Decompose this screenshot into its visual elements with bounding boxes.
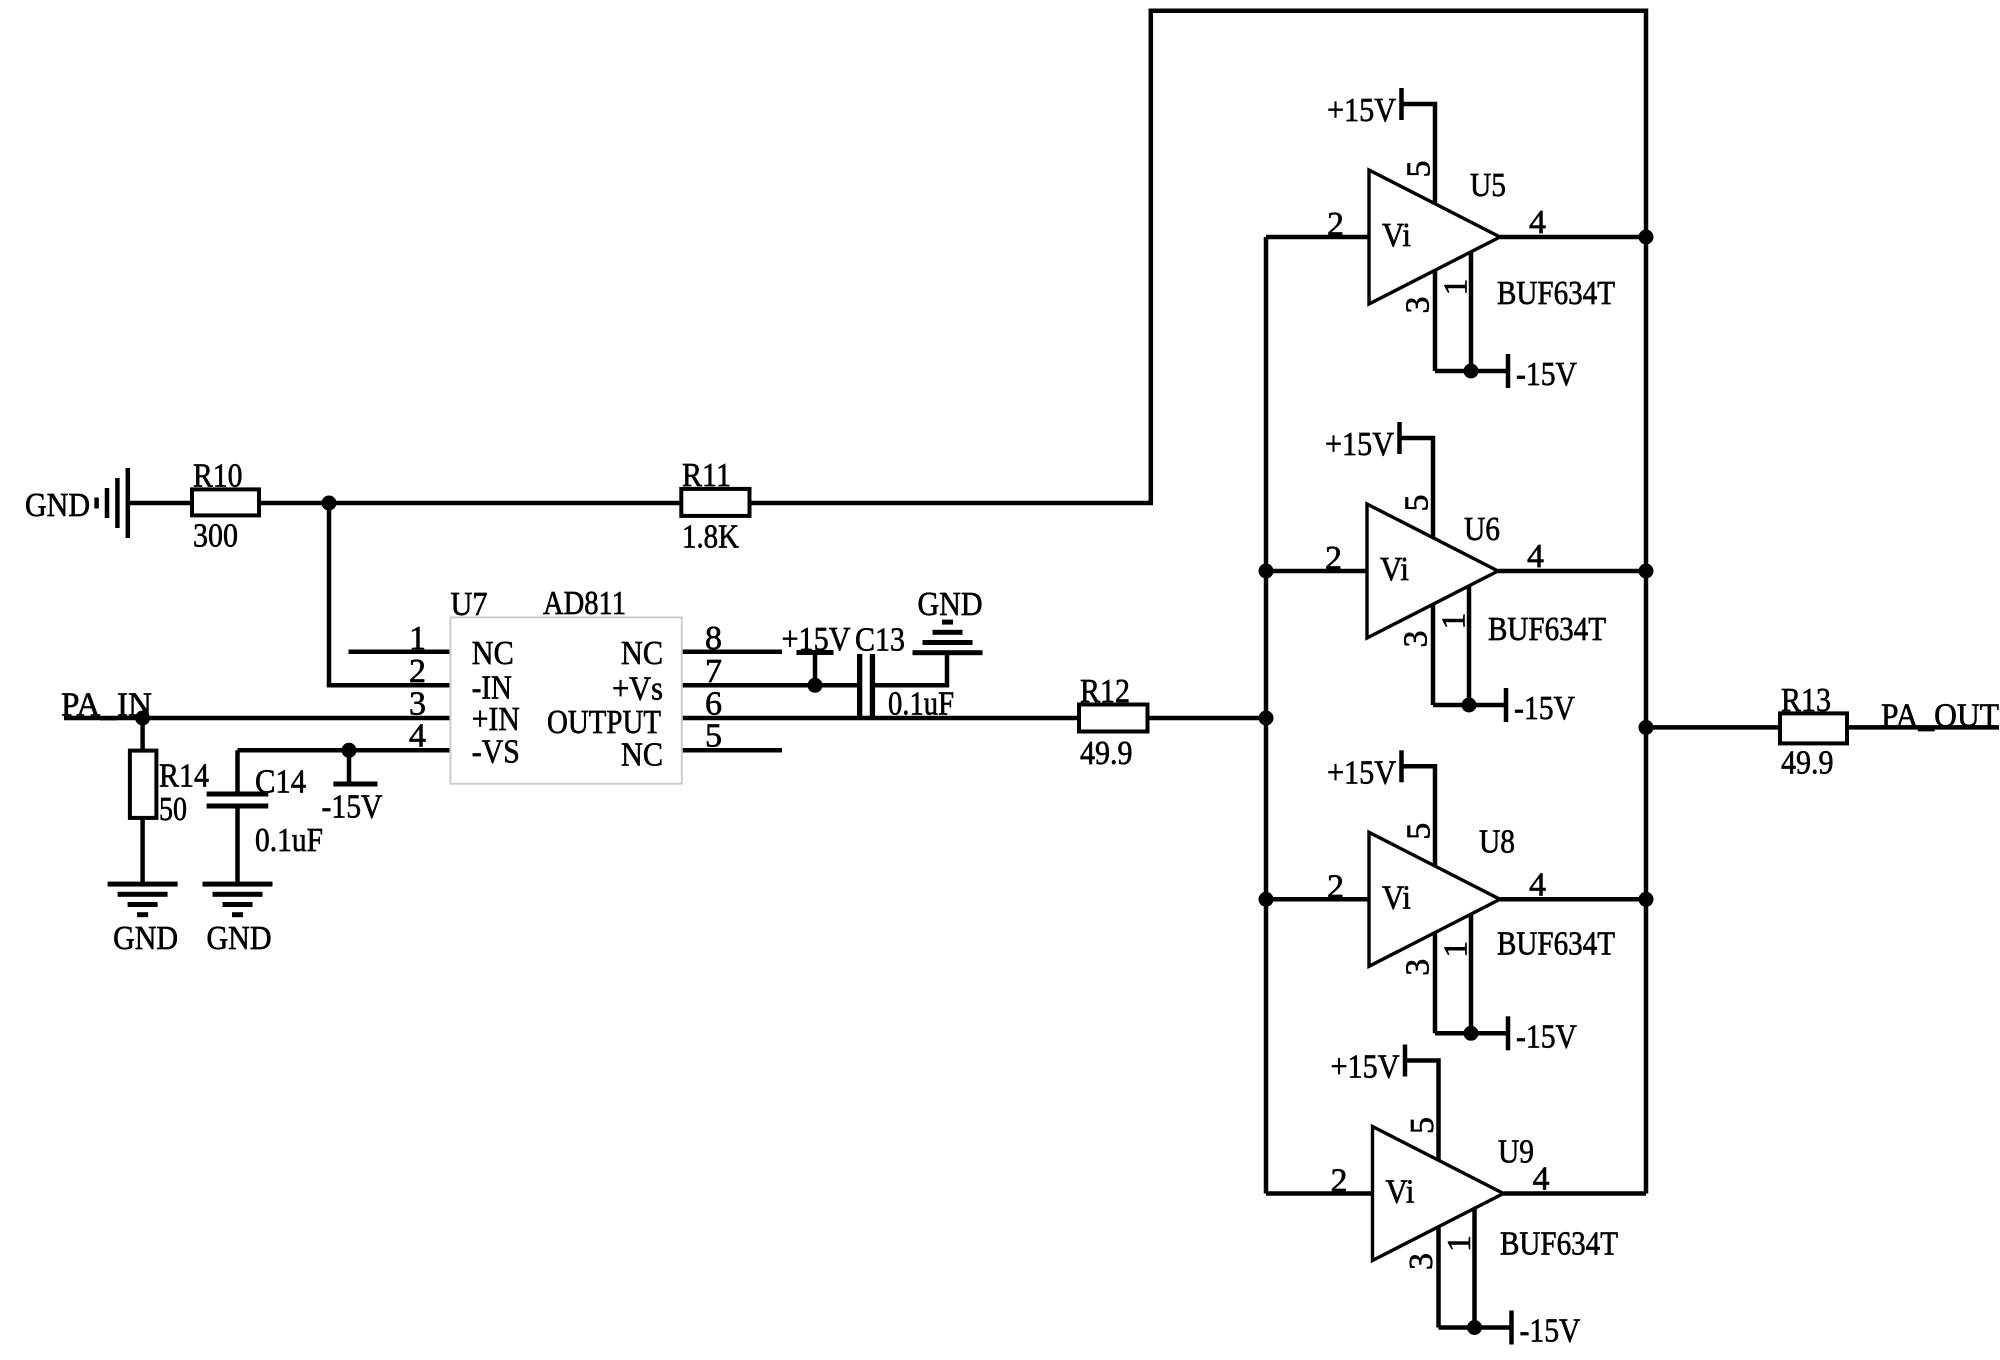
svg-text:4: 4 xyxy=(409,717,426,754)
svg-text:U7: U7 xyxy=(451,586,488,623)
svg-text:Vi: Vi xyxy=(1380,551,1409,588)
svg-text:NC: NC xyxy=(621,737,663,774)
svg-text:49.9: 49.9 xyxy=(1080,735,1133,772)
svg-text:R12: R12 xyxy=(1080,673,1130,710)
svg-text:3: 3 xyxy=(1403,1253,1440,1270)
svg-text:4: 4 xyxy=(1529,204,1546,241)
svg-text:+15V: +15V xyxy=(1331,1049,1400,1086)
svg-text:Vi: Vi xyxy=(1382,879,1411,916)
svg-text:-15V: -15V xyxy=(1514,690,1575,727)
svg-text:U9: U9 xyxy=(1498,1134,1534,1171)
svg-text:0.1uF: 0.1uF xyxy=(888,686,954,723)
svg-text:BUF634T: BUF634T xyxy=(1488,611,1606,648)
svg-text:4: 4 xyxy=(1529,866,1546,903)
svg-text:GND: GND xyxy=(113,920,178,957)
svg-text:R11: R11 xyxy=(682,457,731,494)
svg-text:+15V: +15V xyxy=(1327,92,1396,129)
svg-text:Vi: Vi xyxy=(1386,1174,1415,1211)
svg-text:5: 5 xyxy=(1401,823,1438,840)
svg-text:-VS: -VS xyxy=(472,734,520,771)
svg-text:8: 8 xyxy=(705,620,722,657)
svg-text:4: 4 xyxy=(1527,538,1544,575)
svg-text:1.8K: 1.8K xyxy=(682,519,739,556)
svg-text:PA_IN: PA_IN xyxy=(61,687,152,724)
svg-text:NC: NC xyxy=(472,635,514,672)
svg-text:-15V: -15V xyxy=(1516,356,1577,393)
svg-text:BUF634T: BUF634T xyxy=(1500,1226,1618,1263)
svg-text:OUTPUT: OUTPUT xyxy=(547,704,661,741)
svg-text:1: 1 xyxy=(1441,1235,1478,1252)
svg-text:1: 1 xyxy=(1436,613,1473,630)
svg-text:GND: GND xyxy=(25,487,90,524)
svg-text:4: 4 xyxy=(1533,1161,1550,1198)
svg-text:R14: R14 xyxy=(159,758,209,795)
svg-text:GND: GND xyxy=(207,920,272,957)
svg-text:R13: R13 xyxy=(1781,682,1831,719)
svg-text:+15V: +15V xyxy=(1325,426,1394,463)
svg-text:PA_OUT: PA_OUT xyxy=(1881,698,1999,735)
svg-text:5: 5 xyxy=(1404,1117,1441,1134)
svg-text:5: 5 xyxy=(1399,495,1436,512)
svg-text:+15V: +15V xyxy=(1327,754,1396,791)
svg-text:+15V: +15V xyxy=(782,621,851,658)
svg-text:3: 3 xyxy=(1400,959,1437,976)
svg-text:300: 300 xyxy=(193,518,238,555)
svg-text:+IN: +IN xyxy=(472,701,520,738)
svg-text:-15V: -15V xyxy=(1520,1313,1581,1350)
svg-text:7: 7 xyxy=(705,653,722,690)
svg-text:U8: U8 xyxy=(1479,823,1515,860)
svg-text:-15V: -15V xyxy=(322,789,383,826)
svg-text:BUF634T: BUF634T xyxy=(1497,925,1615,962)
svg-text:R10: R10 xyxy=(193,458,243,495)
svg-text:50: 50 xyxy=(159,791,187,828)
svg-text:+Vs: +Vs xyxy=(612,671,663,708)
svg-text:49.9: 49.9 xyxy=(1781,745,1834,782)
svg-text:C14: C14 xyxy=(255,764,306,801)
svg-text:AD811: AD811 xyxy=(543,585,626,622)
svg-text:2: 2 xyxy=(1325,540,1342,577)
svg-text:U5: U5 xyxy=(1470,167,1506,204)
svg-text:BUF634T: BUF634T xyxy=(1497,275,1615,312)
svg-text:C13: C13 xyxy=(855,622,905,659)
svg-text:1: 1 xyxy=(1438,279,1475,296)
svg-text:-15V: -15V xyxy=(1516,1018,1577,1055)
svg-text:2: 2 xyxy=(409,653,426,690)
svg-text:2: 2 xyxy=(1327,206,1344,243)
svg-text:U6: U6 xyxy=(1464,511,1500,548)
svg-text:2: 2 xyxy=(1327,868,1344,905)
svg-text:2: 2 xyxy=(1331,1163,1348,1200)
svg-text:5: 5 xyxy=(1401,161,1438,178)
svg-text:3: 3 xyxy=(1398,631,1435,648)
svg-text:Vi: Vi xyxy=(1382,217,1411,254)
svg-text:3: 3 xyxy=(1400,297,1437,314)
svg-text:1: 1 xyxy=(1438,941,1475,958)
svg-text:5: 5 xyxy=(705,717,722,754)
svg-text:NC: NC xyxy=(621,635,663,672)
svg-text:0.1uF: 0.1uF xyxy=(255,822,323,859)
svg-text:GND: GND xyxy=(918,586,983,623)
svg-text:1: 1 xyxy=(409,620,426,657)
